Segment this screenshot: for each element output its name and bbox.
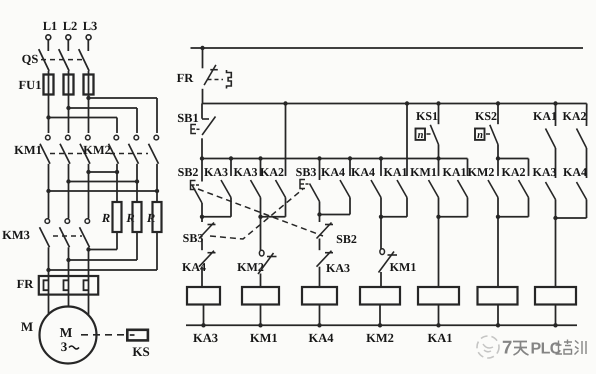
- resistor R (phase2 branch): [66, 202, 141, 262]
- svg-text:KA3: KA3: [234, 165, 258, 179]
- svg-text:KA4: KA4: [321, 165, 345, 179]
- disconnect switch QS: [22, 40, 89, 71]
- relay contact KA4 (NO, branch D): [351, 156, 383, 217]
- contactor contact KM2 (NO self-hold, branch label KM2): [468, 159, 501, 220]
- thermal relay FR heater elements: [17, 276, 99, 295]
- wire control rail 3 (left section): [202, 158, 468, 160]
- coil KA4: [302, 287, 337, 345]
- svg-text:KA1: KA1: [533, 109, 557, 123]
- speed relay KS: [81, 330, 150, 359]
- svg-text:KS2: KS2: [475, 109, 497, 123]
- svg-text:R: R: [146, 211, 155, 225]
- speed relay contact KS2 (NO): [475, 101, 500, 160]
- svg-text:M: M: [21, 319, 33, 334]
- svg-text:R: R: [101, 211, 110, 225]
- svg-text:KA3: KA3: [193, 331, 218, 345]
- node rail3 junction SB2 branch: [200, 156, 204, 160]
- pushbutton SB2 NC contact in branch C: [317, 215, 357, 251]
- svg-text:KM2: KM2: [83, 143, 111, 157]
- svg-text:KM1: KM1: [14, 143, 42, 157]
- dashed link SB2 (NO to NC): [198, 189, 323, 236]
- svg-text:KM2: KM2: [468, 165, 495, 179]
- wire phase1 KM3 to FR: [48, 247, 50, 276]
- contactor KM1 main contacts: [14, 135, 90, 164]
- svg-text:3: 3: [61, 339, 68, 354]
- wire tap L3 to KM2 right column: [86, 96, 157, 133]
- relay contact KA3 NC in branch C: [317, 251, 351, 287]
- svg-text:KM3: KM3: [2, 228, 30, 242]
- svg-text:SB3: SB3: [296, 165, 317, 179]
- svg-text:SB2: SB2: [178, 165, 199, 179]
- relay contact KA4 (NO, parallel with SB3): [317, 156, 352, 216]
- svg-text:KM1: KM1: [390, 260, 417, 274]
- watermark text 7天PLC培训: [502, 337, 586, 358]
- svg-text:KM1: KM1: [410, 165, 437, 179]
- wire tap L1 to KM2 left column: [46, 115, 117, 133]
- pushbutton SB2 (NO start, branch label SB2): [178, 159, 202, 217]
- pushbutton SB3 NC contact in branch A: [183, 217, 216, 250]
- svg-text:KA2: KA2: [502, 165, 526, 179]
- svg-text:FU1: FU1: [19, 78, 42, 92]
- svg-text:L3: L3: [83, 19, 98, 33]
- svg-text:KA3: KA3: [326, 261, 350, 275]
- svg-text:KS1: KS1: [416, 109, 438, 123]
- wire KM2 col1 to phase3 junction: [86, 164, 119, 202]
- svg-text:7: 7: [502, 337, 512, 358]
- fuse FU1 (three-phase): [19, 71, 94, 133]
- node L3 terminal: [83, 19, 98, 40]
- svg-text:SB1: SB1: [177, 111, 199, 125]
- svg-text:SB2: SB2: [336, 232, 357, 246]
- wire tap L2 to KM2 middle column: [66, 106, 137, 133]
- relay contact KA3 (NO, parallel with SB2): [200, 156, 233, 219]
- coil KM3: [535, 218, 576, 325]
- wire phase2 KM3 to FR: [68, 247, 70, 276]
- svg-text:KA4: KA4: [351, 165, 375, 179]
- wire control rail 2: [202, 103, 587, 105]
- svg-text:KA1: KA1: [384, 165, 408, 179]
- contactor contact KM1 NC interlock: [379, 217, 417, 287]
- dashed link SB3 (NC to NO): [210, 189, 303, 239]
- wire KM2 col2 to phase2 junction: [66, 164, 139, 202]
- wire control rail 1 (top): [191, 46, 584, 50]
- relay contact KA2 (NO, parallel): [498, 159, 529, 217]
- contactor contact KM2 NC interlock: [237, 217, 276, 287]
- svg-text:KA2: KA2: [563, 109, 587, 123]
- wire FR to motor (3 leads): [49, 295, 89, 315]
- svg-text:PLC: PLC: [531, 341, 562, 358]
- watermark logo: [477, 336, 499, 358]
- svg-text:L2: L2: [63, 19, 78, 33]
- coil KA2: [478, 217, 518, 325]
- wire phase1 KM1 to KM3: [48, 164, 50, 219]
- svg-text:L1: L1: [43, 19, 58, 33]
- svg-text:KA3: KA3: [204, 165, 228, 179]
- svg-text:KM1: KM1: [250, 331, 278, 345]
- relay contact KA4 (NO, series branch G): [556, 165, 588, 218]
- coil KM2: [360, 287, 400, 345]
- svg-text:FR: FR: [177, 71, 195, 85]
- motor M 3-phase: [21, 307, 97, 364]
- svg-text:KS: KS: [132, 344, 149, 359]
- relay contact KA1 (NO, parallel): [439, 159, 468, 217]
- wire phase3 KM3 to FR: [88, 247, 90, 276]
- coil KA3: [187, 287, 220, 345]
- relay contact KA2 (NO, top right): [563, 104, 587, 179]
- node L1 terminal: [43, 19, 58, 40]
- speed relay contact KS1 (NO): [416, 101, 441, 160]
- wire KM2 col3 to phase1 junction: [46, 164, 159, 202]
- svg-text:KA2: KA2: [260, 165, 284, 179]
- svg-text:M: M: [60, 325, 73, 340]
- svg-text:QS: QS: [22, 52, 39, 66]
- relay contact KA1 (NO, top right): [533, 101, 558, 178]
- relay contact KA4 NC in branch A: [182, 251, 216, 287]
- wire control rail 3 (right section): [498, 158, 529, 160]
- contactor contact KM1 (NO self-hold, branch label KM1): [410, 159, 441, 220]
- coil KA1: [418, 217, 459, 345]
- wire phase2 KM1 to KM3: [68, 164, 70, 219]
- coil KM1: [242, 287, 279, 345]
- contactor KM3 main contacts: [2, 219, 89, 248]
- relay contact KA3 (NO, branch B): [234, 156, 263, 217]
- svg-text:KA4: KA4: [563, 165, 587, 179]
- node L2 terminal: [63, 19, 78, 40]
- svg-text:KA3: KA3: [533, 165, 557, 179]
- svg-text:n: n: [477, 130, 483, 141]
- pushbutton SB3 (NO start, branch label SB3): [296, 156, 322, 214]
- thermal relay FR NC contact: [177, 48, 232, 104]
- wire control rail bottom: [186, 323, 577, 327]
- relay contact KA2 (NO, fed from rail2): [258, 101, 287, 219]
- contactor KM2 main contacts: [83, 135, 158, 164]
- svg-text:n: n: [418, 130, 424, 141]
- svg-text:KA4: KA4: [309, 331, 335, 345]
- relay contact KA1 (NO, fed from rail2): [379, 101, 409, 219]
- pushbutton SB1 (NC stop): [177, 104, 215, 159]
- resistor R (phase3 branch): [86, 202, 121, 252]
- svg-text:KM2: KM2: [366, 331, 394, 345]
- resistor R (phase1 branch): [46, 202, 161, 272]
- relay contact KA3 (NO, series branch G): [533, 165, 558, 220]
- wire phase3 KM1 to KM3: [88, 164, 90, 219]
- svg-text:KA1: KA1: [428, 331, 453, 345]
- svg-text:FR: FR: [17, 277, 35, 291]
- svg-text:KA1: KA1: [443, 165, 467, 179]
